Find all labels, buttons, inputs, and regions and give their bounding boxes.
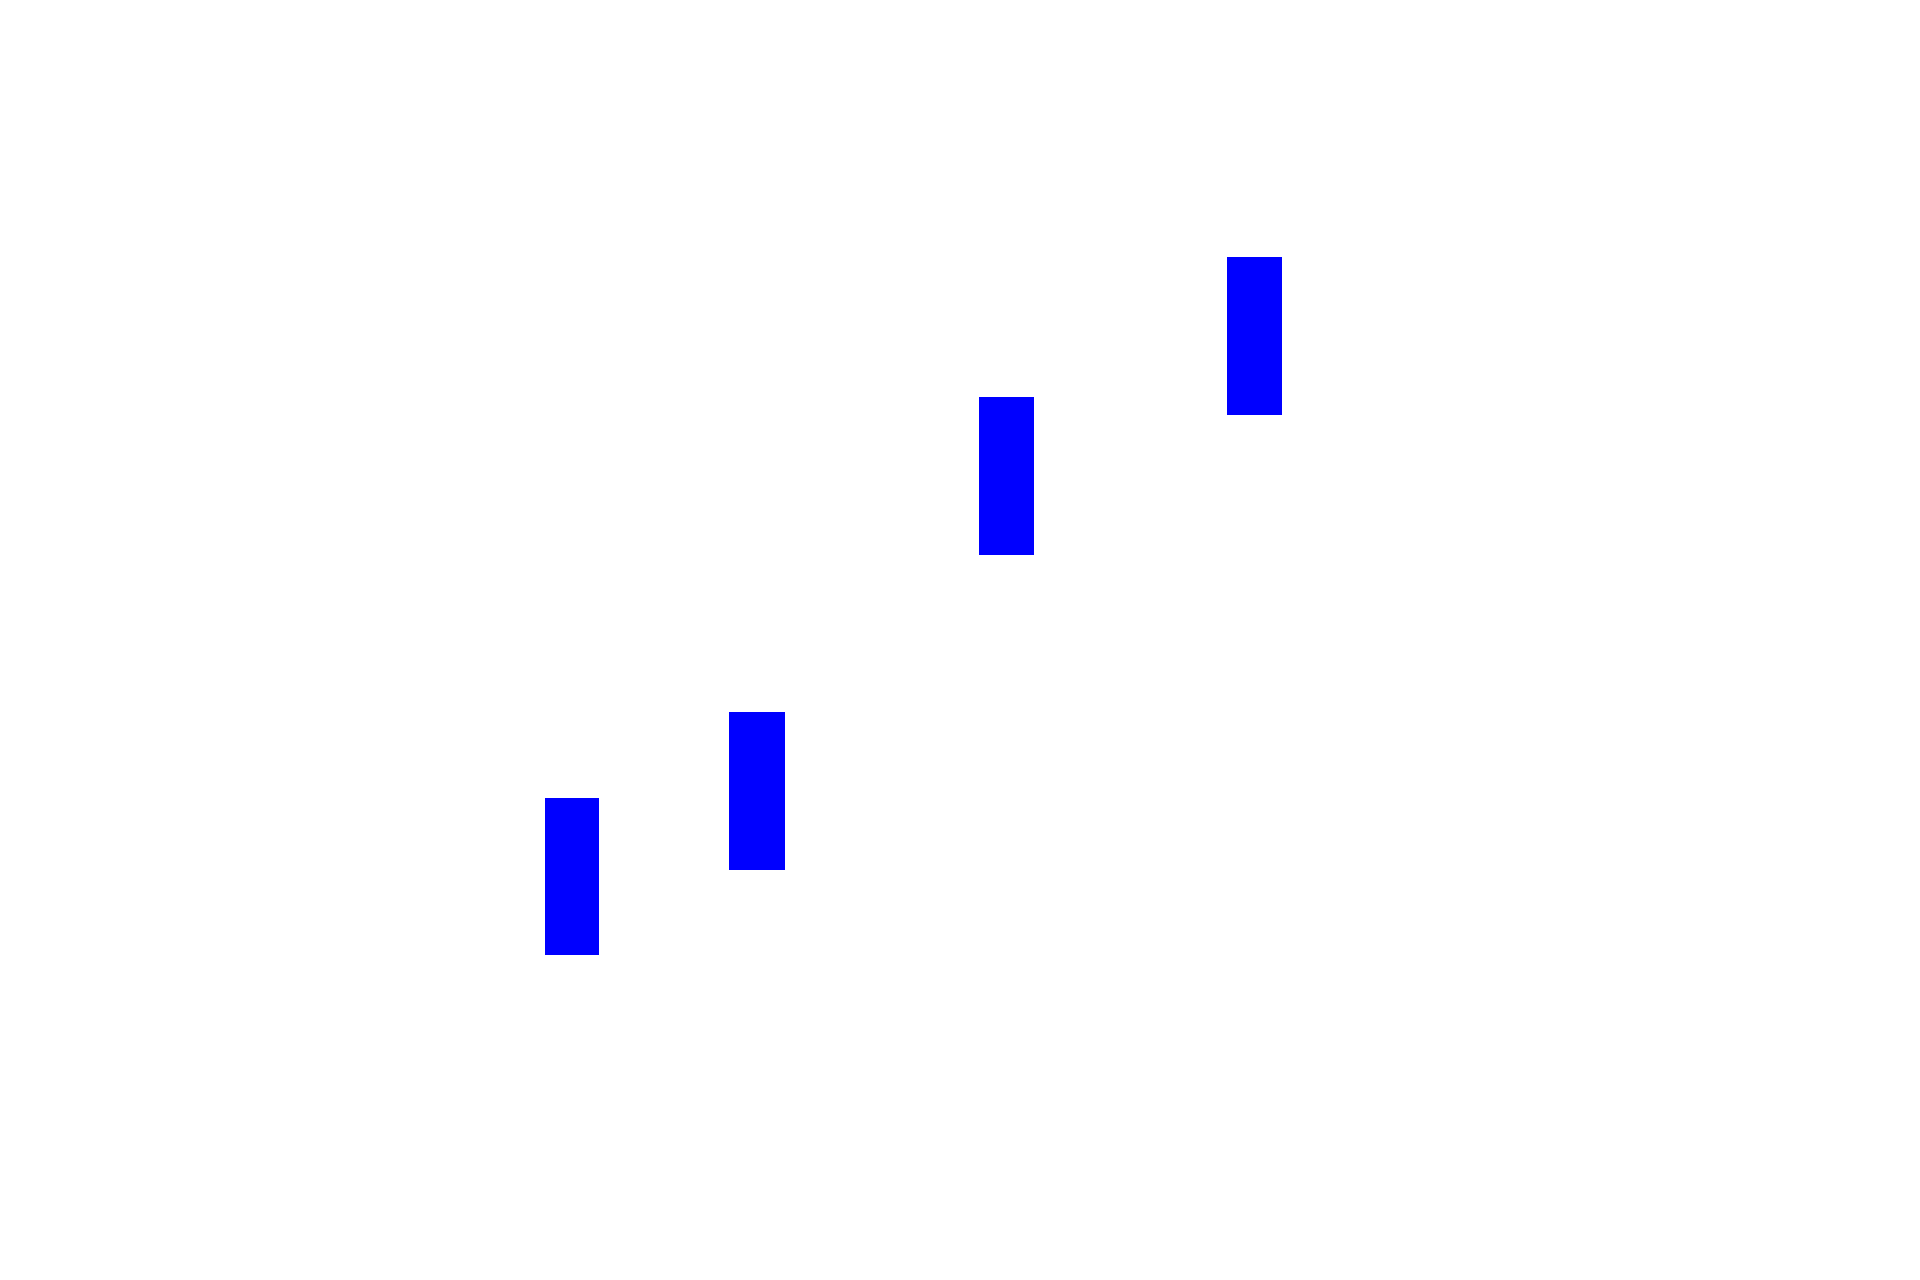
bar 2 xyxy=(729,712,785,870)
bar 3 xyxy=(979,397,1034,555)
bar 1 xyxy=(545,798,599,955)
bar 4 xyxy=(1227,257,1282,415)
